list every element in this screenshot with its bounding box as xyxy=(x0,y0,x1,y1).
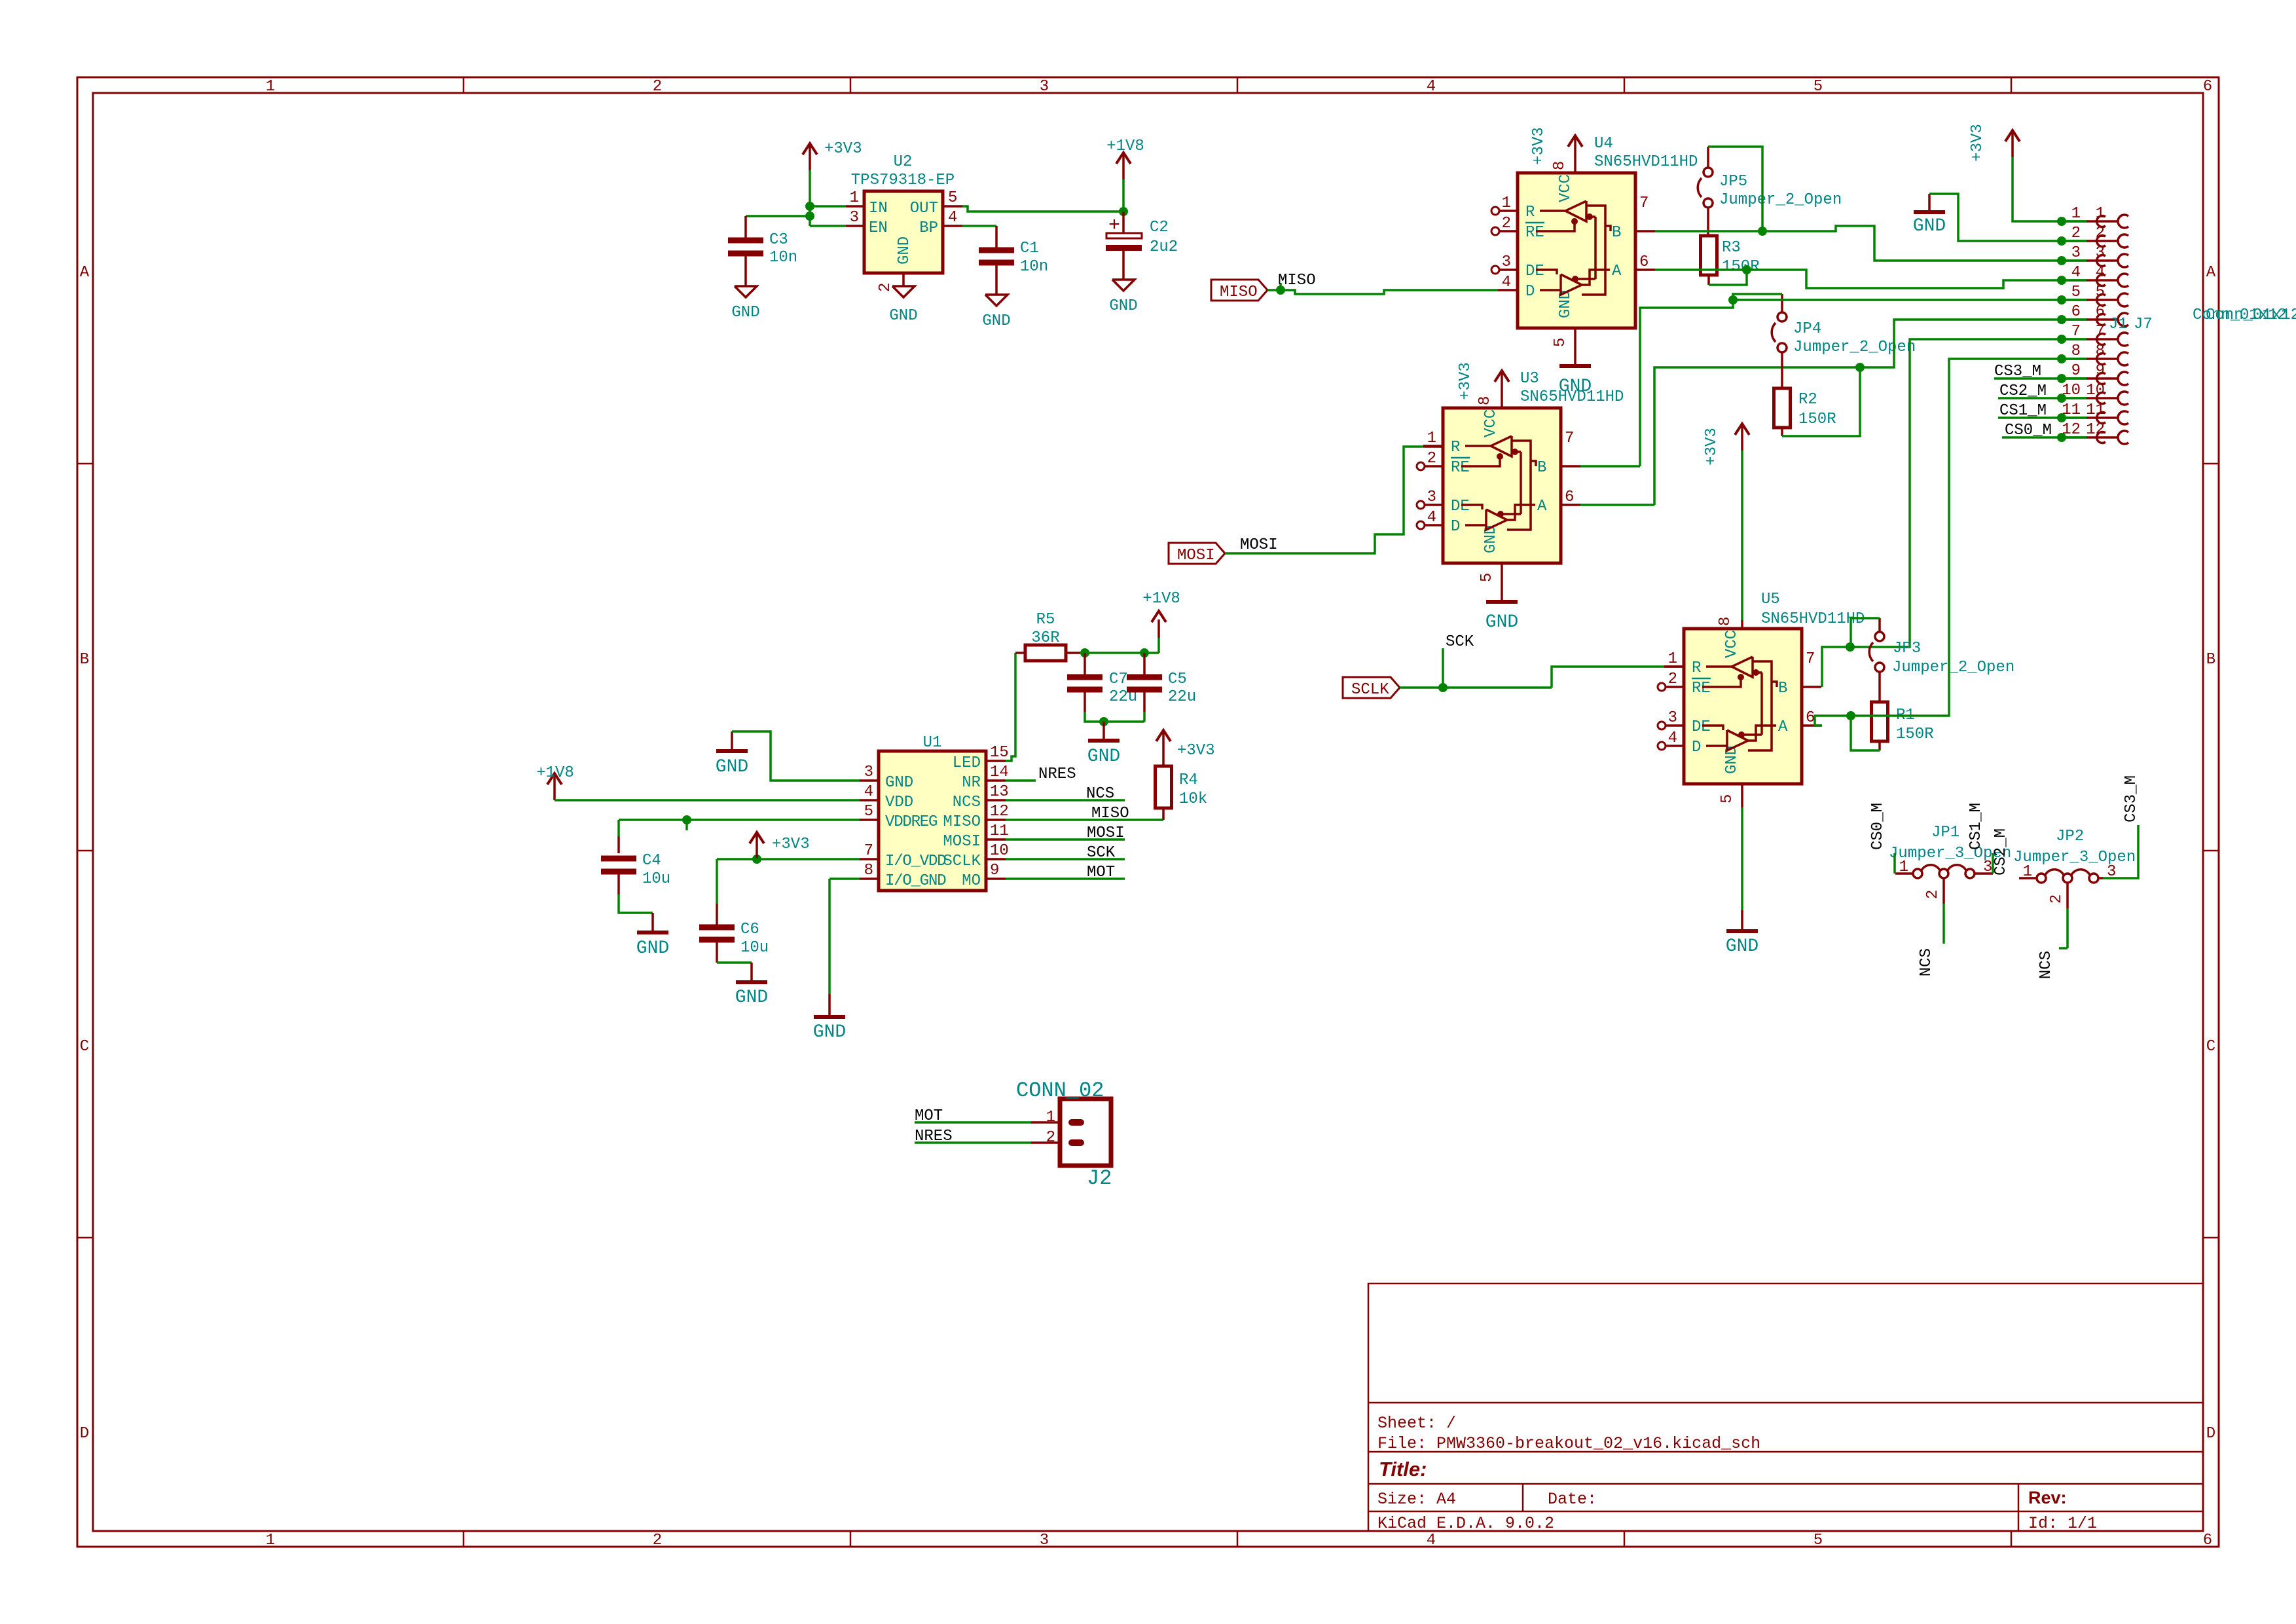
svg-text:5: 5 xyxy=(1719,794,1736,803)
svg-text:R: R xyxy=(1451,439,1460,456)
svg-text:11: 11 xyxy=(2086,401,2105,419)
svg-text:NRES: NRES xyxy=(1038,766,1076,783)
svg-text:GND: GND xyxy=(1109,297,1137,315)
wire U1 pin8 to ground xyxy=(829,877,860,880)
svg-text:Jumper_2_Open: Jumper_2_Open xyxy=(1892,659,2014,676)
U1 pin 10 SCLK xyxy=(986,858,1006,860)
hierarchical label MOSI xyxy=(1169,543,1225,564)
capacitor C7 xyxy=(1084,653,1086,674)
U1 pin 8 I/O_GND xyxy=(860,877,879,880)
wire +3V3 to U2.IN/EN xyxy=(809,170,811,226)
svg-text:3: 3 xyxy=(864,764,873,781)
JP2 pin3 wire to CS3_M xyxy=(2098,877,2103,879)
wire to U2 pin3 EN xyxy=(810,225,846,227)
JP2 pin1 wire to CS2_M xyxy=(2019,877,2037,879)
svg-text:+3V3: +3V3 xyxy=(1177,742,1215,760)
svg-text:6: 6 xyxy=(2203,1532,2212,1549)
junction JP4/row5 xyxy=(1728,295,1738,304)
svg-text:8: 8 xyxy=(2071,342,2081,360)
resistor R4 10k pullup xyxy=(1162,808,1165,820)
svg-text:6: 6 xyxy=(2096,303,2105,321)
svg-text:B: B xyxy=(1612,224,1621,242)
wire NRES from U1 pin14 xyxy=(1006,779,1036,782)
wire +3V3 to U1 pin7 xyxy=(717,858,860,860)
svg-text:10: 10 xyxy=(2062,382,2081,399)
svg-text:4: 4 xyxy=(1427,1532,1436,1549)
svg-text:VCC: VCC xyxy=(1482,409,1500,437)
ground (J7 pin2) xyxy=(1928,194,1931,211)
svg-text:TPS79318-EP: TPS79318-EP xyxy=(851,172,955,189)
junction VDDREG node xyxy=(682,815,691,824)
svg-text:D: D xyxy=(1451,518,1460,536)
svg-text:C1: C1 xyxy=(1020,240,1039,257)
svg-text:A: A xyxy=(1537,498,1547,515)
svg-text:VCC: VCC xyxy=(1557,174,1575,202)
svg-text:B: B xyxy=(1778,680,1787,697)
svg-text:+3V3: +3V3 xyxy=(1457,362,1474,400)
wire +3V3 to row1 xyxy=(2013,157,2086,221)
svg-text:8: 8 xyxy=(864,862,873,879)
svg-text:SN65HVD11HD: SN65HVD11HD xyxy=(1520,388,1624,406)
svg-text:I/O_GND: I/O_GND xyxy=(885,872,946,890)
svg-text:GND: GND xyxy=(1723,746,1741,774)
svg-text:R5: R5 xyxy=(1036,611,1055,629)
svg-text:GND: GND xyxy=(813,1022,846,1043)
wire U1 LED pin15 to R5 xyxy=(1006,653,1015,761)
svg-text:4: 4 xyxy=(948,209,957,227)
svg-text:NCS: NCS xyxy=(1918,948,1935,976)
svg-text:10n: 10n xyxy=(1020,258,1048,276)
U3 pin 5 GND xyxy=(1501,563,1503,600)
svg-text:JP1: JP1 xyxy=(1931,824,1959,841)
svg-text:MO: MO xyxy=(962,872,981,890)
connector J1/J7 pin 3 xyxy=(2057,256,2066,265)
C7/C5 ground xyxy=(1088,739,1120,743)
svg-text:10: 10 xyxy=(990,842,1009,860)
svg-text:MOT: MOT xyxy=(915,1107,943,1125)
svg-text:7: 7 xyxy=(1565,430,1574,447)
svg-text:3: 3 xyxy=(1427,489,1436,506)
transceiver U3 SN65HVD11HD xyxy=(1443,408,1561,563)
svg-text:8: 8 xyxy=(1551,161,1569,170)
U1 pin 7 I/O_VDD xyxy=(860,858,879,860)
svg-text:R: R xyxy=(1525,204,1535,221)
svg-text:MOSI: MOSI xyxy=(1087,824,1125,842)
JP5 bottom leg to R3 xyxy=(1707,208,1709,236)
svg-text:NCS: NCS xyxy=(1086,785,1114,803)
svg-text:JP5: JP5 xyxy=(1719,173,1747,191)
svg-text:9: 9 xyxy=(2096,362,2105,380)
svg-text:7: 7 xyxy=(2071,323,2081,341)
svg-text:B: B xyxy=(2206,651,2215,669)
svg-text:+1V8: +1V8 xyxy=(1106,138,1144,155)
wire MOT to J2 pin1 xyxy=(915,1121,1031,1124)
svg-text:12: 12 xyxy=(2086,421,2105,439)
svg-text:22u: 22u xyxy=(1168,688,1196,706)
U1 pin 11 MOSI xyxy=(986,838,1006,841)
jumper JP4 xyxy=(1777,312,1787,322)
svg-text:3: 3 xyxy=(1668,709,1677,727)
svg-text:D: D xyxy=(1692,739,1701,756)
wire gnd to row2 xyxy=(1929,194,2086,241)
svg-text:1: 1 xyxy=(2096,205,2105,223)
column/row division ticks xyxy=(463,77,465,93)
svg-text:B: B xyxy=(1537,459,1546,477)
svg-text:7: 7 xyxy=(864,842,873,860)
svg-text:CS2_M: CS2_M xyxy=(1992,828,2010,876)
connector J1/J7 pin 12 xyxy=(2057,433,2066,442)
svg-text:Jumper_2_Open: Jumper_2_Open xyxy=(1719,191,1842,209)
connector J1/J7 pin 4 xyxy=(2057,276,2066,285)
U5 pin 8 VCC power +3V3 xyxy=(1741,620,1743,629)
svg-text:2: 2 xyxy=(1427,450,1436,468)
svg-text:1: 1 xyxy=(1502,194,1511,212)
svg-text:NCS: NCS xyxy=(2037,951,2055,979)
svg-text:MOT: MOT xyxy=(1087,864,1115,881)
U2 pin 2 GND xyxy=(902,273,905,286)
svg-text:3: 3 xyxy=(850,209,859,227)
svg-text:1: 1 xyxy=(2023,863,2032,881)
wire SCLK xyxy=(1400,686,1552,689)
svg-text:JP4: JP4 xyxy=(1793,320,1821,338)
svg-text:11: 11 xyxy=(990,822,1009,840)
connector J1/J7 pin 1 xyxy=(2057,217,2066,226)
svg-text:B: B xyxy=(80,651,89,669)
U1 pin 12 MISO xyxy=(986,819,1006,821)
U1 pin 5 VDDREG xyxy=(860,819,879,821)
jumper JP2 Jumper_3_Open xyxy=(2037,874,2046,883)
U1 pin 14 NR xyxy=(986,779,1006,782)
junction R2/A-net xyxy=(1855,363,1865,372)
wire C3 to node xyxy=(746,215,810,217)
svg-text:GND: GND xyxy=(1557,290,1575,318)
resistor R2 150R xyxy=(1774,388,1791,428)
U2 ground symbol xyxy=(892,286,915,297)
U1 PMW3360 body xyxy=(879,751,986,891)
svg-text:C: C xyxy=(80,1038,89,1056)
svg-text:DE: DE xyxy=(1692,718,1711,736)
jumper JP3 xyxy=(1875,632,1884,641)
svg-text:6: 6 xyxy=(1639,253,1649,271)
svg-text:C6: C6 xyxy=(740,921,759,938)
svg-text:15: 15 xyxy=(990,744,1009,762)
svg-text:+3V3: +3V3 xyxy=(1703,428,1721,466)
svg-text:RE: RE xyxy=(1525,224,1544,242)
junction U5.B xyxy=(1846,642,1855,652)
svg-text:NCS: NCS xyxy=(953,794,981,811)
svg-text:150R: 150R xyxy=(1896,726,1934,743)
svg-text:VCC: VCC xyxy=(1723,630,1741,658)
svg-text:+3V3: +3V3 xyxy=(772,836,810,853)
junction EN/C3 node xyxy=(805,212,814,221)
svg-text:File: PMW3360-breakout_02_v16.: File: PMW3360-breakout_02_v16.kicad_sch xyxy=(1377,1434,1760,1453)
jumper JP1 Jumper_3_Open xyxy=(1913,869,1922,878)
wire MOSI from U1 pin11 xyxy=(1006,838,1125,841)
connector J1/J7 pin 6 xyxy=(2057,315,2066,324)
svg-text:C4: C4 xyxy=(642,852,661,870)
svg-text:GND: GND xyxy=(896,236,913,265)
power +1V8 (regulator output) xyxy=(1122,179,1125,212)
junction R5/C7 xyxy=(1080,648,1089,657)
capacitor C3 xyxy=(744,216,747,238)
svg-text:A: A xyxy=(80,264,90,282)
svg-text:2: 2 xyxy=(1924,890,1942,899)
svg-text:GND: GND xyxy=(885,774,913,792)
U1 pin 13 NCS xyxy=(986,799,1006,802)
capacitor C1 xyxy=(995,226,998,248)
JP5 top leg loop to B net xyxy=(1707,147,1709,168)
svg-text:7: 7 xyxy=(2096,323,2105,341)
svg-text:+3V3: +3V3 xyxy=(824,140,862,158)
capacitor C4 xyxy=(601,856,636,862)
power +3V3 (J7 pin1) xyxy=(2011,131,2014,157)
wire to U2 pin1 IN xyxy=(810,205,846,208)
svg-text:GND: GND xyxy=(636,938,669,959)
wire R5 to C5/+1V8 xyxy=(1085,652,1159,654)
svg-text:13: 13 xyxy=(990,783,1009,801)
svg-text:R2: R2 xyxy=(1798,391,1817,409)
svg-text:GND: GND xyxy=(889,307,917,325)
svg-text:JP3: JP3 xyxy=(1893,640,1921,657)
svg-text:GND: GND xyxy=(1485,612,1518,633)
svg-text:CS1_M: CS1_M xyxy=(1967,803,1985,850)
U1 pin 9 MO xyxy=(986,877,1006,880)
svg-text:MISO: MISO xyxy=(1220,284,1258,301)
svg-text:A: A xyxy=(1778,718,1788,736)
U2 pin 3 EN xyxy=(846,225,864,227)
svg-text:MISO: MISO xyxy=(1091,805,1129,822)
svg-text:Conn_01x12: Conn_01x12 xyxy=(2206,306,2296,324)
svg-text:5: 5 xyxy=(1813,1532,1823,1549)
JP4 top leg xyxy=(1781,294,1783,312)
junction IN node xyxy=(805,202,814,211)
svg-text:R: R xyxy=(1692,659,1701,677)
wire U5.A to J7 row8 xyxy=(1815,359,2086,726)
svg-text:10n: 10n xyxy=(769,249,797,267)
svg-text:1: 1 xyxy=(1427,430,1436,447)
connector J1/J7 pin 7 xyxy=(2057,335,2066,344)
svg-text:1: 1 xyxy=(1899,858,1908,876)
svg-text:2: 2 xyxy=(1502,215,1511,232)
svg-text:NR: NR xyxy=(962,774,981,792)
svg-text:11: 11 xyxy=(2062,401,2081,419)
svg-text:10: 10 xyxy=(2086,382,2105,399)
svg-text:8: 8 xyxy=(2096,342,2105,360)
svg-text:JP2: JP2 xyxy=(2056,828,2084,845)
svg-text:GND: GND xyxy=(1726,936,1758,957)
svg-text:Size: A4: Size: A4 xyxy=(1377,1490,1456,1509)
svg-text:7: 7 xyxy=(1806,650,1815,668)
wire MISO from U1 pin12 to R4 xyxy=(1006,819,1163,821)
svg-text:10u: 10u xyxy=(740,939,769,957)
wire to J7 row6 xyxy=(1860,320,2086,367)
svg-text:Sheet: /: Sheet: / xyxy=(1377,1414,1456,1433)
svg-text:C7: C7 xyxy=(1109,671,1128,688)
JP2 pin2 wire to NCS xyxy=(2066,883,2069,908)
JP4 bottom leg to R2 xyxy=(1781,352,1783,388)
svg-text:U2: U2 xyxy=(894,153,913,171)
svg-text:GND: GND xyxy=(1482,525,1500,553)
svg-text:10k: 10k xyxy=(1179,790,1207,808)
svg-text:U5: U5 xyxy=(1761,591,1780,608)
svg-text:J1: J1 xyxy=(2109,316,2128,333)
wire NRES to J2 pin2 xyxy=(915,1141,1031,1144)
svg-text:1: 1 xyxy=(1668,650,1677,668)
svg-text:2: 2 xyxy=(1046,1129,1055,1147)
U4 pin 5 GND xyxy=(1574,328,1576,365)
svg-text:6: 6 xyxy=(1565,489,1574,506)
svg-text:Rev:: Rev: xyxy=(2028,1488,2067,1507)
svg-text:D: D xyxy=(1525,283,1535,301)
svg-text:5: 5 xyxy=(948,189,957,207)
junction C7/C5 ground node xyxy=(1099,717,1108,726)
svg-text:GND: GND xyxy=(1087,747,1120,767)
svg-text:8: 8 xyxy=(1476,396,1494,405)
svg-text:6: 6 xyxy=(2071,303,2081,321)
connector J1/J7 pin 8 xyxy=(2057,354,2066,363)
connector J2 CONN_02 body xyxy=(1060,1099,1111,1166)
power +3V3 (U1 IO) xyxy=(752,855,761,864)
svg-text:MISO: MISO xyxy=(943,813,981,831)
svg-text:12: 12 xyxy=(990,803,1009,821)
svg-text:2: 2 xyxy=(1668,671,1677,688)
svg-text:2: 2 xyxy=(653,78,662,96)
svg-text:MOSI: MOSI xyxy=(943,833,981,851)
U1 pin 4 VDD xyxy=(860,799,879,802)
power +1V8 (U1 VDD) xyxy=(553,774,556,800)
U5 pin 5 GND xyxy=(1741,784,1743,807)
svg-text:3: 3 xyxy=(1040,1532,1049,1549)
svg-text:RE: RE xyxy=(1692,680,1711,697)
wire SCK from U1 pin10 xyxy=(1006,858,1125,860)
wire MOT from U1 pin9 xyxy=(1006,877,1125,880)
svg-text:4: 4 xyxy=(2071,264,2081,282)
svg-text:3: 3 xyxy=(2096,244,2105,262)
svg-text:Jumper_2_Open: Jumper_2_Open xyxy=(1793,339,1916,356)
U2 TPS79318-EP body xyxy=(864,191,943,273)
svg-text:J2: J2 xyxy=(1087,1166,1112,1190)
svg-text:7: 7 xyxy=(1639,194,1649,212)
svg-text:2: 2 xyxy=(2048,895,2066,904)
wire C4 to VDDREG xyxy=(617,820,620,836)
svg-text:1: 1 xyxy=(266,1532,275,1549)
svg-text:RE: RE xyxy=(1451,459,1470,477)
transceiver U4 SN65HVD11HD xyxy=(1518,173,1635,328)
svg-text:D: D xyxy=(80,1425,89,1443)
wire +1V8 to U1.VDD pin4 xyxy=(555,799,860,802)
junction U5.A node xyxy=(1846,711,1855,720)
svg-text:3: 3 xyxy=(1502,253,1511,271)
wire U5.B to JP3 node xyxy=(1822,647,1850,687)
wire VDDREG xyxy=(619,819,860,821)
connector J1/J7 pin 5 xyxy=(2057,295,2066,304)
wire SCK label stub xyxy=(1442,648,1444,688)
svg-text:A: A xyxy=(1612,263,1622,280)
svg-text:150R: 150R xyxy=(1798,411,1836,428)
svg-text:LED: LED xyxy=(953,754,981,772)
junction C5 node xyxy=(1140,648,1149,657)
svg-text:5: 5 xyxy=(1813,78,1823,96)
C2 ground xyxy=(1112,280,1135,291)
wire SCLK to U5.R xyxy=(1552,667,1664,688)
svg-text:5: 5 xyxy=(2096,284,2105,301)
resistor R3 150R xyxy=(1701,236,1717,275)
svg-text:MOSI: MOSI xyxy=(1177,547,1215,564)
JP1 pin1 wire to CS0_M xyxy=(1895,872,1913,875)
svg-text:1: 1 xyxy=(266,78,275,96)
hierarchical label SCLK xyxy=(1343,677,1400,698)
svg-text:4: 4 xyxy=(1668,729,1677,747)
svg-text:2: 2 xyxy=(877,283,894,292)
connector J1/J7 pin 9 xyxy=(2057,374,2066,383)
svg-text:GND: GND xyxy=(731,304,759,322)
U4 pin 8 VCC power +3V3 xyxy=(1574,162,1576,173)
svg-text:U1: U1 xyxy=(923,734,942,752)
svg-text:4: 4 xyxy=(1427,78,1436,96)
svg-text:+1V8: +1V8 xyxy=(536,764,574,782)
svg-text:5: 5 xyxy=(1478,573,1496,582)
svg-text:4: 4 xyxy=(1427,509,1436,526)
connector J1/J7 pin 2 xyxy=(2057,236,2066,246)
R1 bottom loop xyxy=(1878,741,1881,750)
svg-text:GND: GND xyxy=(735,987,768,1008)
junction +1V8 node xyxy=(1119,207,1128,216)
J2 pin 1 xyxy=(1031,1121,1060,1124)
wire gnd to U1 pin3 xyxy=(732,731,860,781)
svg-text:+1V8: +1V8 xyxy=(1142,590,1180,608)
title block frame xyxy=(1368,1283,2203,1531)
svg-text:SCLK: SCLK xyxy=(943,853,981,870)
U2 pin 4 BP xyxy=(943,225,962,227)
wire NCS from U1 pin13 xyxy=(1006,799,1125,802)
svg-text:KiCad E.D.A. 9.0.2: KiCad E.D.A. 9.0.2 xyxy=(1377,1514,1554,1533)
svg-text:OUT: OUT xyxy=(910,200,938,217)
connector J1/J7 pin 10 xyxy=(2057,394,2066,403)
svg-text:SCK: SCK xyxy=(1446,633,1474,651)
wire U2.OUT to +1V8 node xyxy=(962,206,1123,212)
J2 pin 2 xyxy=(1031,1141,1060,1144)
svg-text:IN: IN xyxy=(869,200,888,217)
svg-text:1: 1 xyxy=(1046,1109,1055,1126)
svg-text:2u2: 2u2 xyxy=(1150,238,1178,256)
svg-text:EN: EN xyxy=(869,219,888,237)
junction A/R3 xyxy=(1742,265,1751,274)
svg-text:SN65HVD11HD: SN65HVD11HD xyxy=(1761,610,1865,628)
transceiver U5 SN65HVD11HD xyxy=(1684,629,1802,784)
wire row5 net xyxy=(1733,299,2086,301)
svg-text:2: 2 xyxy=(653,1532,662,1549)
svg-text:CS3_M: CS3_M xyxy=(2123,775,2140,822)
svg-text:DE: DE xyxy=(1525,263,1544,280)
capacitor C5 xyxy=(1143,653,1146,674)
svg-text:6: 6 xyxy=(1806,709,1815,727)
wire U4.A to J7 row4 xyxy=(1655,268,1747,271)
svg-text:C2: C2 xyxy=(1150,219,1169,236)
C3 ground xyxy=(735,286,757,297)
svg-text:5: 5 xyxy=(864,803,873,821)
connector J1/J7 pin 11 xyxy=(2057,413,2066,422)
wire U3.A up to R2 net xyxy=(1580,504,1654,506)
junction SCLK xyxy=(1438,683,1448,692)
svg-text:9: 9 xyxy=(2071,362,2081,380)
wire MISO to U4.D xyxy=(1267,290,1498,294)
svg-text:U3: U3 xyxy=(1520,370,1539,388)
svg-text:CS0_M: CS0_M xyxy=(1869,803,1887,850)
svg-text:SCLK: SCLK xyxy=(1351,681,1389,699)
svg-text:4: 4 xyxy=(864,783,873,801)
svg-text:VDD: VDD xyxy=(885,794,913,811)
svg-text:3: 3 xyxy=(1040,78,1049,96)
